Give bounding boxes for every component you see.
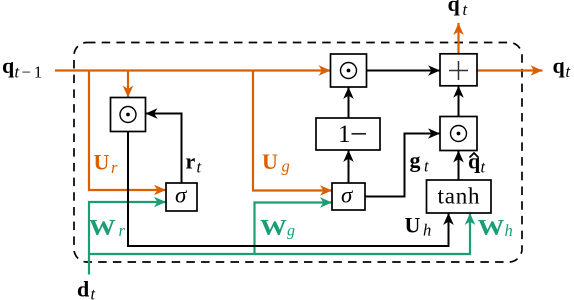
svg-text:t: t [481, 158, 486, 177]
svg-text:1: 1 [338, 121, 351, 148]
svg-text:q: q [2, 53, 15, 78]
svg-text:U: U [262, 149, 278, 174]
svg-text:q: q [448, 0, 461, 16]
svg-text:t: t [424, 157, 429, 176]
svg-text:U: U [94, 150, 110, 175]
svg-text:t: t [566, 62, 571, 81]
svg-text:σ: σ [175, 183, 188, 208]
svg-text:h: h [505, 221, 513, 240]
svg-text:W: W [478, 216, 505, 240]
svg-text:r: r [186, 149, 196, 174]
svg-text:t: t [91, 285, 96, 300]
svg-text:tanh: tanh [438, 184, 481, 209]
svg-text:g: g [410, 148, 421, 173]
svg-text:t: t [463, 0, 468, 19]
svg-text:r: r [119, 221, 126, 240]
svg-text:q: q [553, 53, 566, 78]
svg-text:W: W [260, 216, 287, 240]
svg-text:W: W [89, 216, 116, 240]
svg-text:r: r [111, 158, 118, 177]
svg-text:t−1: t−1 [15, 63, 43, 82]
svg-text:g: g [287, 223, 295, 240]
svg-text:g: g [282, 157, 290, 176]
svg-text:h: h [423, 221, 431, 240]
svg-text:t: t [197, 158, 202, 177]
svg-text:d: d [77, 277, 89, 300]
svg-text:σ: σ [341, 183, 354, 208]
svg-text:U: U [405, 213, 421, 238]
